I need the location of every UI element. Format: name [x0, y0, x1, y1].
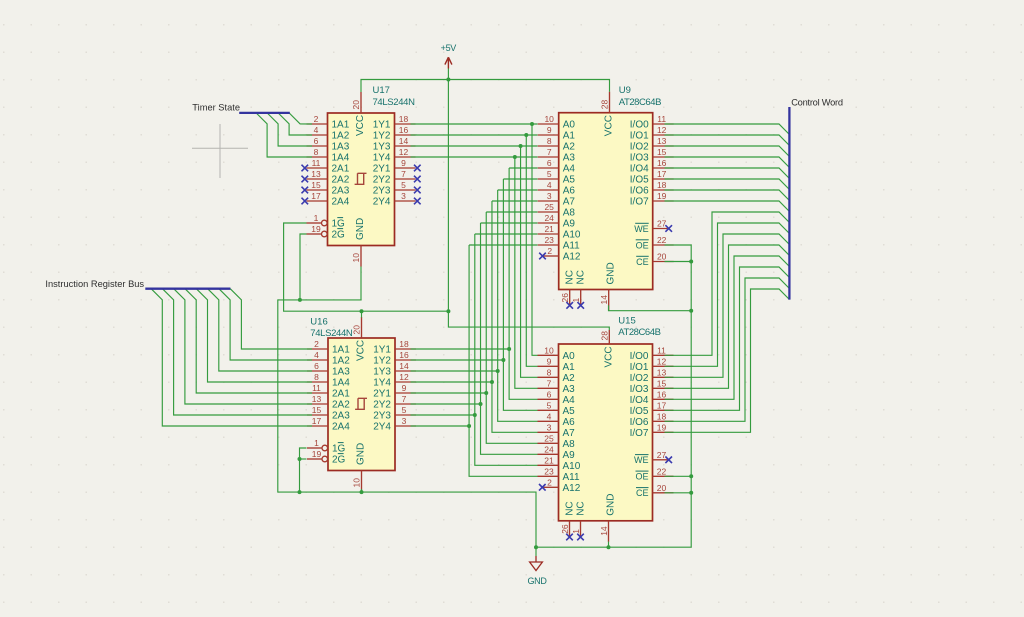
svg-text:2: 2 [314, 339, 319, 349]
svg-text:OE: OE [635, 472, 648, 482]
svg-text:I/O4: I/O4 [630, 164, 649, 175]
svg-text:A5: A5 [563, 406, 576, 417]
svg-text:19: 19 [312, 449, 322, 459]
svg-text:I/O2: I/O2 [630, 142, 649, 153]
svg-text:VCC: VCC [604, 346, 615, 367]
svg-text:A4: A4 [563, 395, 576, 406]
svg-text:2: 2 [314, 114, 319, 124]
svg-text:10: 10 [351, 253, 361, 263]
svg-text:4: 4 [314, 350, 319, 360]
svg-text:GND: GND [606, 494, 617, 516]
svg-text:20: 20 [657, 252, 667, 262]
svg-text:2: 2 [547, 246, 552, 256]
svg-text:24: 24 [544, 445, 554, 455]
svg-text:WE: WE [634, 455, 649, 465]
svg-text:A7: A7 [563, 428, 576, 439]
svg-text:13: 13 [657, 136, 667, 146]
svg-text:WE: WE [634, 224, 649, 234]
svg-text:12: 12 [657, 357, 667, 367]
svg-text:4: 4 [547, 180, 552, 190]
svg-text:1Y1: 1Y1 [373, 345, 391, 356]
svg-text:Instruction Register Bus: Instruction Register Bus [45, 279, 144, 289]
svg-text:17: 17 [657, 169, 667, 179]
svg-text:8: 8 [314, 147, 319, 157]
svg-text:1Y1: 1Y1 [373, 120, 391, 131]
svg-text:A5: A5 [563, 175, 576, 186]
svg-text:GND: GND [527, 576, 547, 586]
svg-text:1G: 1G [332, 219, 346, 230]
svg-text:A1: A1 [563, 131, 576, 142]
svg-text:1A2: 1A2 [332, 131, 350, 142]
svg-text:CE: CE [636, 257, 649, 267]
svg-text:14: 14 [599, 295, 609, 305]
svg-text:+5V: +5V [441, 43, 457, 53]
svg-text:A4: A4 [563, 164, 576, 175]
svg-text:1: 1 [314, 213, 319, 223]
svg-text:6: 6 [547, 158, 552, 168]
svg-text:10: 10 [544, 114, 554, 124]
svg-text:U9: U9 [619, 85, 631, 96]
svg-text:13: 13 [311, 169, 321, 179]
svg-text:A10: A10 [563, 461, 581, 472]
svg-text:I/O5: I/O5 [630, 406, 649, 417]
svg-text:22: 22 [657, 235, 667, 245]
svg-text:4: 4 [314, 125, 319, 135]
svg-text:28: 28 [599, 331, 609, 341]
svg-text:I/O5: I/O5 [630, 175, 649, 186]
svg-text:Timer State: Timer State [192, 103, 240, 113]
svg-text:17: 17 [657, 401, 667, 411]
svg-text:1Y4: 1Y4 [373, 378, 391, 389]
svg-text:23: 23 [544, 235, 554, 245]
svg-text:11: 11 [312, 383, 321, 393]
svg-text:13: 13 [312, 394, 322, 404]
svg-text:2Y2: 2Y2 [373, 175, 391, 186]
svg-text:A10: A10 [563, 230, 581, 241]
svg-text:1Y3: 1Y3 [373, 142, 391, 153]
svg-text:1A3: 1A3 [332, 367, 350, 378]
svg-text:11: 11 [657, 346, 666, 356]
svg-text:15: 15 [312, 405, 322, 415]
svg-text:A12: A12 [563, 483, 581, 494]
svg-text:74LS244N: 74LS244N [310, 328, 353, 339]
svg-text:1: 1 [314, 438, 319, 448]
svg-text:A6: A6 [563, 417, 576, 428]
svg-text:8: 8 [547, 368, 552, 378]
svg-text:27: 27 [657, 450, 667, 460]
svg-text:I/O0: I/O0 [630, 120, 649, 131]
svg-text:A2: A2 [563, 373, 576, 384]
svg-text:2A3: 2A3 [332, 186, 350, 197]
svg-text:2A2: 2A2 [332, 400, 350, 411]
svg-text:U17: U17 [373, 85, 390, 96]
svg-text:15: 15 [657, 379, 667, 389]
svg-text:2G: 2G [332, 455, 346, 466]
svg-text:22: 22 [657, 467, 667, 477]
svg-text:23: 23 [544, 467, 554, 477]
svg-text:3: 3 [547, 423, 552, 433]
svg-text:19: 19 [657, 191, 667, 201]
svg-text:U16: U16 [310, 317, 327, 328]
svg-text:1A1: 1A1 [332, 345, 350, 356]
svg-text:13: 13 [657, 368, 667, 378]
svg-text:3: 3 [402, 416, 407, 426]
svg-text:GND: GND [606, 262, 617, 284]
svg-text:I/O2: I/O2 [630, 373, 649, 384]
svg-text:NC: NC [565, 501, 576, 515]
svg-text:2A1: 2A1 [332, 164, 350, 175]
svg-text:2A4: 2A4 [332, 197, 350, 208]
svg-text:A2: A2 [563, 142, 576, 153]
svg-text:I/O4: I/O4 [630, 395, 649, 406]
svg-text:9: 9 [401, 158, 406, 168]
svg-text:I/O1: I/O1 [630, 362, 649, 373]
svg-text:AT28C64B: AT28C64B [619, 97, 661, 108]
svg-text:1A1: 1A1 [332, 120, 350, 131]
svg-text:1Y3: 1Y3 [373, 367, 391, 378]
svg-text:2Y4: 2Y4 [373, 197, 391, 208]
svg-text:I/O1: I/O1 [630, 131, 649, 142]
svg-text:2Y1: 2Y1 [373, 389, 391, 400]
svg-text:U15: U15 [618, 316, 635, 327]
svg-text:VCC: VCC [356, 340, 367, 361]
svg-text:2Y1: 2Y1 [373, 164, 391, 175]
svg-text:A8: A8 [563, 208, 576, 219]
svg-text:1A4: 1A4 [332, 378, 350, 389]
svg-text:2A3: 2A3 [332, 411, 350, 422]
svg-text:2: 2 [547, 478, 552, 488]
svg-text:5: 5 [547, 169, 552, 179]
svg-text:A3: A3 [563, 153, 576, 164]
svg-text:I/O0: I/O0 [630, 351, 649, 362]
svg-text:9: 9 [402, 383, 407, 393]
svg-text:AT28C64B: AT28C64B [618, 327, 660, 338]
svg-text:18: 18 [657, 180, 667, 190]
svg-text:17: 17 [311, 191, 321, 201]
svg-text:17: 17 [312, 416, 322, 426]
svg-text:19: 19 [657, 423, 667, 433]
svg-text:11: 11 [657, 114, 666, 124]
svg-text:NC: NC [565, 270, 576, 284]
svg-text:7: 7 [402, 394, 407, 404]
svg-text:I/O7: I/O7 [630, 197, 649, 208]
svg-text:3: 3 [547, 191, 552, 201]
svg-text:I/O3: I/O3 [630, 384, 649, 395]
svg-text:2A4: 2A4 [332, 422, 350, 433]
svg-text:2A1: 2A1 [332, 389, 350, 400]
svg-text:16: 16 [657, 390, 667, 400]
svg-text:21: 21 [544, 456, 554, 466]
svg-text:A8: A8 [563, 439, 576, 450]
svg-text:VCC: VCC [355, 115, 366, 136]
svg-text:NC: NC [576, 270, 587, 284]
svg-text:14: 14 [599, 526, 609, 536]
svg-text:A12: A12 [563, 252, 581, 263]
svg-text:A9: A9 [563, 450, 576, 461]
svg-text:18: 18 [657, 412, 667, 422]
svg-text:GND: GND [355, 218, 366, 240]
svg-text:16: 16 [657, 158, 667, 168]
svg-text:10: 10 [544, 346, 554, 356]
svg-text:1Y2: 1Y2 [373, 131, 391, 142]
svg-text:15: 15 [311, 180, 321, 190]
svg-text:4: 4 [547, 412, 552, 422]
svg-text:OE: OE [636, 240, 649, 250]
svg-text:6: 6 [314, 136, 319, 146]
svg-text:Control Word: Control Word [791, 98, 843, 108]
svg-text:6: 6 [314, 361, 319, 371]
svg-text:7: 7 [401, 169, 406, 179]
svg-text:12: 12 [399, 147, 409, 157]
svg-text:GND: GND [356, 443, 367, 465]
svg-text:7: 7 [547, 147, 552, 157]
svg-text:25: 25 [544, 434, 554, 444]
svg-text:28: 28 [600, 99, 610, 109]
svg-text:CE: CE [636, 488, 649, 498]
svg-text:8: 8 [314, 372, 319, 382]
svg-text:1Y4: 1Y4 [373, 153, 391, 164]
svg-text:A0: A0 [563, 351, 576, 362]
svg-text:I/O6: I/O6 [630, 186, 649, 197]
svg-text:2Y4: 2Y4 [373, 422, 391, 433]
svg-text:11: 11 [312, 158, 321, 168]
svg-text:NC: NC [576, 501, 587, 515]
svg-text:26: 26 [560, 524, 570, 534]
svg-text:3: 3 [401, 191, 406, 201]
svg-text:18: 18 [399, 339, 409, 349]
svg-text:1Y2: 1Y2 [373, 356, 391, 367]
svg-text:A9: A9 [563, 219, 576, 230]
svg-text:24: 24 [544, 213, 554, 223]
svg-text:20: 20 [352, 325, 362, 335]
svg-text:A3: A3 [563, 384, 576, 395]
svg-text:I/O6: I/O6 [630, 417, 649, 428]
svg-text:5: 5 [401, 180, 406, 190]
svg-text:6: 6 [547, 390, 552, 400]
svg-text:2A2: 2A2 [332, 175, 350, 186]
svg-text:27: 27 [657, 219, 667, 229]
svg-text:I/O3: I/O3 [630, 153, 649, 164]
svg-text:8: 8 [547, 136, 552, 146]
svg-text:74LS244N: 74LS244N [373, 97, 416, 108]
svg-text:9: 9 [547, 125, 552, 135]
svg-text:15: 15 [657, 147, 667, 157]
svg-text:20: 20 [657, 483, 667, 493]
svg-text:1: 1 [571, 298, 581, 303]
svg-text:5: 5 [547, 401, 552, 411]
svg-text:1A3: 1A3 [332, 142, 350, 153]
svg-text:1G: 1G [332, 444, 346, 455]
svg-text:A11: A11 [563, 472, 580, 483]
svg-text:20: 20 [351, 100, 361, 110]
svg-text:VCC: VCC [604, 115, 615, 136]
svg-text:A6: A6 [563, 186, 576, 197]
svg-text:14: 14 [399, 136, 409, 146]
svg-text:A0: A0 [563, 120, 576, 131]
svg-text:5: 5 [402, 405, 407, 415]
svg-text:A1: A1 [563, 362, 576, 373]
svg-text:12: 12 [657, 125, 667, 135]
svg-text:26: 26 [560, 293, 570, 303]
svg-text:2Y3: 2Y3 [373, 411, 391, 422]
svg-text:7: 7 [547, 379, 552, 389]
svg-text:19: 19 [311, 224, 321, 234]
svg-text:10: 10 [352, 478, 362, 488]
svg-text:I/O7: I/O7 [630, 428, 649, 439]
svg-text:2Y3: 2Y3 [373, 186, 391, 197]
svg-text:1A4: 1A4 [332, 153, 350, 164]
svg-text:A7: A7 [563, 197, 576, 208]
svg-text:2Y2: 2Y2 [373, 400, 391, 411]
svg-text:21: 21 [544, 224, 554, 234]
svg-text:16: 16 [399, 350, 409, 360]
svg-text:14: 14 [399, 361, 409, 371]
svg-text:12: 12 [399, 372, 409, 382]
svg-text:25: 25 [544, 202, 554, 212]
svg-text:1: 1 [571, 529, 581, 534]
svg-text:A11: A11 [563, 241, 580, 252]
svg-text:18: 18 [399, 114, 409, 124]
svg-text:2G: 2G [332, 230, 346, 241]
svg-text:9: 9 [547, 357, 552, 367]
svg-text:1A2: 1A2 [332, 356, 350, 367]
svg-text:16: 16 [399, 125, 409, 135]
